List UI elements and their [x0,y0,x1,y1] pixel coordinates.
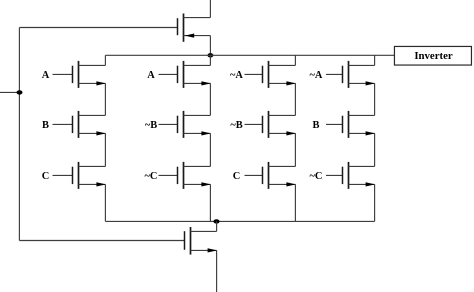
wire: footer source to ground at bottom edge [216,250,218,292]
wire: clock input stub from left edge [0,91,19,93]
nmos transistor M6 (gate ~C) [159,162,211,189]
wire: column 3 top connector [294,55,296,65]
svg-text:~A: ~A [230,70,243,81]
nmos transistor M1 (gate A) [53,61,106,88]
svg-text:Inverter: Inverter [414,50,453,62]
svg-text:~B: ~B [145,120,157,131]
svg-text:~B: ~B [230,120,242,131]
wire: Vdd lead at top [209,0,211,18]
wire: column 4 connector row2-row3 [374,133,376,166]
wire: column 3 connector row2-row3 [294,133,296,166]
nmos transistor M12 (gate ~C) [326,162,375,189]
wire: column 1 bottom connector [104,184,106,221]
wire: column 1 top connector [104,55,106,65]
pmos precharge transistor (top) [178,14,211,42]
wire: pmos source down to output node [209,36,211,56]
junction dot on bottom bus [213,219,219,223]
svg-text:C: C [42,171,50,182]
wire: gate lead to footer nmos [19,240,184,242]
wire: column 4 top connector [374,55,376,65]
inverter block U1 [394,46,471,65]
junction dot at output node [207,53,213,57]
svg-text:A: A [42,70,50,81]
wire: column 4 bottom connector [374,184,376,221]
wire: column 3 bottom connector [294,184,296,221]
wire: column 2 bottom connector [209,184,211,221]
wire: output node top bus [105,54,394,56]
nmos transistor M8 (gate ~B) [245,111,296,138]
nmos evaluate transistor (bottom) [185,227,218,255]
nmos transistor M10 (gate ~A) [326,61,375,88]
wire: column 2 top connector [209,55,211,65]
wire: column 1 connector row2-row3 [104,133,106,166]
nmos transistor M4 (gate A) [159,61,211,88]
junction dot on clock rail [17,90,23,94]
nmos transistor M3 (gate C) [53,162,106,189]
svg-text:~A: ~A [310,70,323,81]
wire: gate lead to precharge pmos [19,27,177,29]
nmos transistor M5 (gate ~B) [159,111,211,138]
wire: bottom bus [105,220,374,222]
wire: footer drain connector [216,221,218,231]
nmos transistor M2 (gate B) [53,111,106,138]
wire: column 2 connector row2-row3 [209,133,211,166]
nmos transistor M9 (gate C) [245,162,296,189]
wire: column 1 connector row1-row2 [104,83,106,115]
wire: column 2 connector row1-row2 [209,83,211,115]
svg-text:~C: ~C [310,171,323,182]
wire: clock rail left vertical [18,28,20,241]
nmos transistor M7 (gate ~A) [245,61,296,88]
svg-text:~C: ~C [145,171,158,182]
svg-text:B: B [42,120,49,131]
svg-text:A: A [147,70,155,81]
wire: column 4 connector row1-row2 [374,83,376,115]
wire: column 3 connector row1-row2 [294,83,296,115]
nmos transistor M11 (gate B) [326,111,375,138]
svg-text:C: C [233,171,241,182]
svg-text:B: B [313,120,320,131]
